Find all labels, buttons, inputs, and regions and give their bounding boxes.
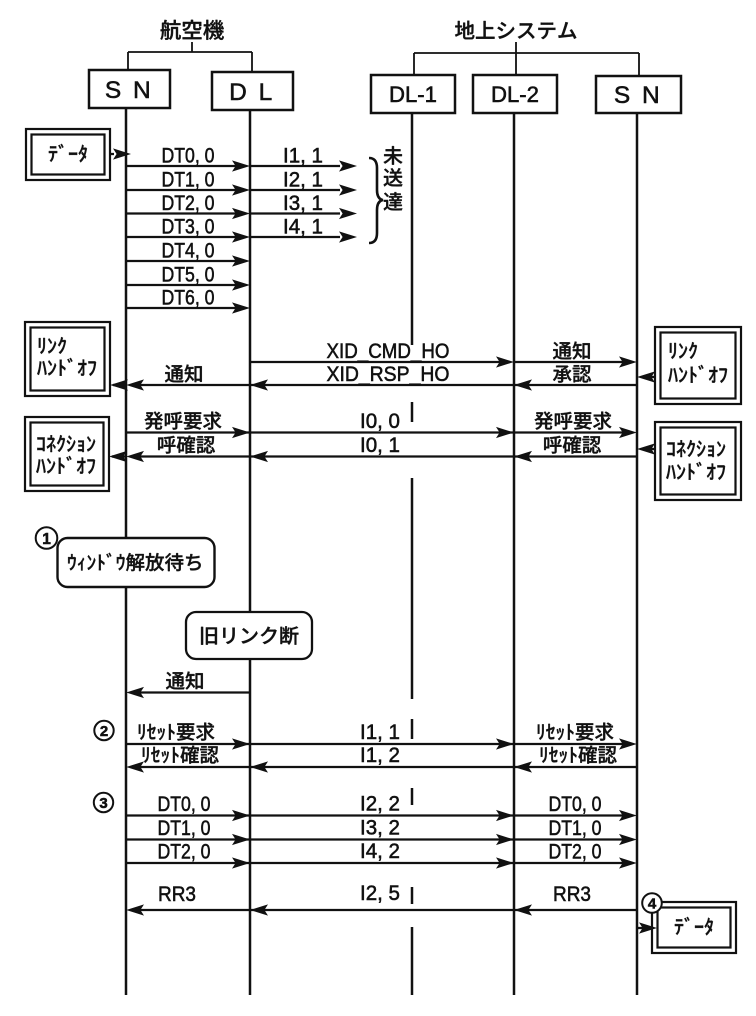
- arrow link handoff right to SN ground: [650, 376, 655, 378]
- svg-text:1: 1: [42, 531, 51, 548]
- svg-text:I4, 1: I4, 1: [283, 216, 323, 239]
- circled number 2: [94, 721, 113, 740]
- lifeline SN ground: [636, 113, 639, 995]
- svg-text:DT6, 0: DT6, 0: [162, 287, 215, 310]
- arrow DT1,0 SN to DL: [126, 189, 237, 191]
- lifeline DL-2: [513, 114, 516, 995]
- lifeline SN aircraft: [125, 108, 128, 538]
- svg-text:4: 4: [648, 896, 657, 913]
- svg-text:DT3, 0: DT3, 0: [162, 216, 215, 239]
- box DL-2: [473, 75, 557, 113]
- note box ウィンドウ解放待ち: [58, 538, 215, 587]
- svg-text:XID_CMD_HO: XID_CMD_HO: [327, 339, 450, 363]
- arrow DT0,0 SN to DL: [126, 165, 237, 167]
- arrow 通知 DL to SN air: [139, 691, 250, 693]
- svg-text:DT1, 0: DT1, 0: [162, 169, 215, 192]
- bracket ground group: [515, 42, 517, 75]
- svg-text:I2, 2: I2, 2: [360, 793, 400, 816]
- circled number 4: [642, 893, 662, 913]
- svg-text:3: 3: [99, 795, 107, 812]
- box SN ground: [596, 76, 681, 113]
- arrow DT4,0 SN to DL: [126, 260, 237, 262]
- svg-text:DT4, 0: DT4, 0: [162, 240, 215, 263]
- svg-text:DT0, 0: DT0, 0: [158, 793, 211, 816]
- arrow DT6,0 SN to DL: [126, 307, 237, 309]
- arrow 通知 DL-2 to SN ground: [514, 361, 624, 363]
- arrow DT1,0 SN air to DL to DL-2 to SN ground: [126, 838, 624, 840]
- svg-text:RR3: RR3: [158, 883, 196, 906]
- svg-text:DT0, 0: DT0, 0: [549, 793, 602, 816]
- box DL aircraft: [212, 72, 293, 110]
- arrow data to SN: [110, 153, 114, 155]
- svg-text:S N: S N: [614, 82, 662, 109]
- svg-text:I1, 2: I1, 2: [360, 744, 400, 767]
- svg-text:I0, 0: I0, 0: [360, 410, 400, 433]
- brace undelivered group: [369, 158, 383, 243]
- box link handoff left (double border): [25, 322, 110, 396]
- arrow I4,1 DL onward (undelivered): [250, 236, 340, 238]
- svg-text:I2, 1: I2, 1: [283, 169, 323, 192]
- arrow I2,1 DL onward (undelivered): [250, 189, 340, 191]
- arrow SN air to connection-handoff box: [112, 455, 126, 457]
- svg-text:DT0, 0: DT0, 0: [162, 145, 215, 168]
- svg-text:DT1, 0: DT1, 0: [158, 817, 211, 840]
- arrow リセット確認 SN ground back to SN air / I1,2: [139, 766, 637, 768]
- arrow SN ground to data box: [637, 927, 644, 929]
- label 未送達 (undelivered) vertical: [384, 146, 403, 165]
- circled number 3: [94, 793, 113, 812]
- arrow connection handoff right to SN ground: [650, 448, 655, 450]
- box connection handoff right (double border): [655, 422, 741, 500]
- svg-text:I3, 1: I3, 1: [283, 192, 323, 215]
- arrow I1,1 DL onward (undelivered): [250, 165, 340, 167]
- arrow リセット要求 SN air to DL / I1,1 / リセット要求 to SN ground: [126, 743, 624, 745]
- svg-text:I2, 5: I2, 5: [360, 882, 400, 905]
- svg-text:I0, 1: I0, 1: [360, 434, 400, 457]
- arrow SN air to link-handoff box: [113, 384, 126, 386]
- box connection handoff left (double border): [25, 417, 109, 491]
- arrow XID_CMD_HO DL to DL-2: [250, 361, 501, 363]
- arrow DT2,0 SN air to DL to DL-2 to SN ground: [126, 862, 624, 864]
- arrow 承認 SN ground to DL-2 / XID_RSP_HO to DL / 通知 to SN air: [139, 384, 637, 386]
- svg-text:DL-2: DL-2: [491, 82, 539, 107]
- svg-text:RR3: RR3: [553, 883, 591, 906]
- svg-text:DT2, 0: DT2, 0: [162, 192, 215, 215]
- box DL-1: [371, 75, 455, 113]
- lifeline DL-1 (old link, becomes dashed): [411, 114, 414, 345]
- svg-text:DT2, 0: DT2, 0: [158, 841, 211, 864]
- svg-text:2: 2: [100, 723, 108, 740]
- box link handoff right (double border): [655, 327, 741, 404]
- svg-text:DT5, 0: DT5, 0: [162, 264, 215, 287]
- box data (double border) bottom-right: [652, 902, 736, 953]
- arrow DT3,0 SN to DL: [126, 236, 237, 238]
- box SN aircraft: [89, 70, 170, 108]
- svg-text:DL-1: DL-1: [389, 82, 437, 107]
- svg-text:I4, 2: I4, 2: [360, 840, 400, 863]
- arrow DT2,0 SN to DL: [126, 212, 237, 214]
- svg-text:S N: S N: [105, 77, 153, 104]
- box data (double border) top-left: [26, 129, 110, 180]
- svg-text:I1, 1: I1, 1: [360, 721, 400, 744]
- circled number 1: [36, 527, 58, 549]
- svg-text:I1, 1: I1, 1: [283, 145, 323, 168]
- arrow I3,1 DL onward (undelivered): [250, 212, 340, 214]
- svg-text:DT1, 0: DT1, 0: [549, 817, 602, 840]
- note box 旧リンク断 (old link disconnected): [186, 612, 312, 659]
- lifeline DL aircraft: [249, 110, 252, 612]
- svg-text:XID_RSP_HO: XID_RSP_HO: [327, 362, 450, 386]
- title ground system 地上システム: [455, 21, 576, 40]
- svg-text:D L: D L: [229, 79, 275, 106]
- arrow 発呼要求 SN air to DL / I0,0 / 発呼要求 to SN ground: [126, 431, 624, 433]
- arrow 呼確認 SN ground to ... SN air: [139, 455, 637, 457]
- arrow DT5,0 SN to DL: [126, 284, 237, 286]
- bracket aircraft group: [191, 42, 193, 52]
- svg-text:DT2, 0: DT2, 0: [549, 841, 602, 864]
- arrow RR3 SN ground to SN air / I2,5: [139, 909, 637, 911]
- title aircraft group 航空機: [160, 20, 223, 40]
- svg-text:I3, 2: I3, 2: [360, 817, 400, 840]
- arrow DT0,0 SN air to DL to DL-2 to SN ground: [126, 814, 624, 816]
